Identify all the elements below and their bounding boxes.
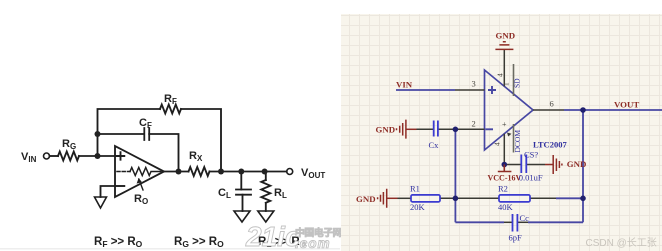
svg-text:VOUT: VOUT <box>614 100 639 110</box>
wire <box>181 109 221 172</box>
svg-text:CS?: CS? <box>524 150 538 160</box>
svg-text:GND: GND <box>356 194 376 204</box>
resistor RO internal with dashed lead <box>117 171 130 173</box>
blue component labels <box>410 78 567 243</box>
resistor RL <box>261 180 270 203</box>
svg-text:GND: GND <box>496 30 516 40</box>
LEFT PANEL (white schematic) <box>44 105 293 223</box>
small pin mark <box>507 133 512 137</box>
left panel labels <box>21 93 325 249</box>
op-amp plus input marker <box>117 152 125 160</box>
svg-text:VIN: VIN <box>396 80 413 90</box>
svg-text:Cx: Cx <box>429 140 440 150</box>
footer line left panel <box>0 248 340 250</box>
wire CL <box>240 172 242 190</box>
svg-text:1: 1 <box>502 82 511 86</box>
pin numbers gray <box>472 73 554 146</box>
pin 6 <box>533 109 564 111</box>
watermark 21ic.com left panel <box>245 221 343 251</box>
pin DCOM <box>513 124 515 153</box>
node VIN terminal <box>44 153 50 159</box>
wire <box>210 171 287 173</box>
capacitor C8 <box>521 155 526 174</box>
svg-text:Cc: Cc <box>520 213 530 223</box>
node junction dots left panel <box>95 131 268 175</box>
wire <box>149 134 178 172</box>
ground <box>234 211 250 222</box>
svg-text:R2: R2 <box>498 184 508 194</box>
wire <box>98 133 145 135</box>
RIGHT PANEL (beige Altium schematic) <box>341 14 662 251</box>
arrow to RO <box>139 179 143 190</box>
junction dots right panel <box>453 107 586 201</box>
wire <box>79 155 115 157</box>
plus input marker <box>488 86 496 94</box>
wire <box>98 109 161 156</box>
op-amp U1 LTC2007 <box>485 70 534 150</box>
svg-text:GND: GND <box>376 125 396 135</box>
wire vertical VOUT to Cc <box>582 110 584 222</box>
minus input marker <box>486 128 494 130</box>
resistor RX <box>189 167 210 176</box>
svg-text:4: 4 <box>496 73 505 77</box>
wire vertical Cx to bottom <box>454 129 456 222</box>
svg-text:RG >> RO: RG >> RO <box>174 236 224 249</box>
svg-text:GND: GND <box>567 159 587 169</box>
svg-text:CSDN @长工张: CSDN @长工张 <box>586 237 657 249</box>
resistor RG <box>58 152 79 161</box>
svg-text:0.01uF: 0.01uF <box>519 173 543 183</box>
node VOUT tap <box>580 107 586 113</box>
wire junction to C8 <box>504 164 521 166</box>
svg-text:LTC2007: LTC2007 <box>533 139 567 149</box>
svg-text:RO: RO <box>134 193 148 206</box>
wire <box>50 155 59 157</box>
ground GND at Cx <box>397 120 417 139</box>
pins (dark) <box>398 50 565 223</box>
svg-text:CF: CF <box>139 117 152 130</box>
wire VIN <box>396 89 455 91</box>
node D (RF tap) <box>218 169 224 175</box>
svg-text:6: 6 <box>550 99 554 109</box>
svg-text:VOUT: VOUT <box>301 167 325 180</box>
pin V- down <box>503 134 505 165</box>
capacitor CF <box>144 128 149 140</box>
capacitor CL <box>236 190 251 195</box>
pin 4 V+ from GND <box>503 50 505 87</box>
pin 2 wire <box>438 128 485 130</box>
pin SD <box>513 64 515 153</box>
wire Cx right <box>417 128 434 130</box>
pin 3 <box>455 89 485 91</box>
node B (CF tap) <box>95 131 101 137</box>
resistor RF <box>160 105 181 114</box>
ground <box>95 197 107 208</box>
wire VOUT <box>564 109 662 111</box>
svg-text:2: 2 <box>472 119 476 129</box>
ground GND at R1 <box>378 189 398 208</box>
svg-text:RX: RX <box>189 150 203 163</box>
ground <box>258 211 274 222</box>
wire C8 to gnd <box>527 164 546 166</box>
wire R2 right <box>530 197 556 199</box>
capacitor Cc <box>513 214 518 232</box>
op-amp U1 <box>115 146 164 197</box>
node C (opamp out / CF) <box>176 169 182 175</box>
node E (CL) <box>238 169 244 175</box>
power VCC-16V bar <box>498 165 512 172</box>
node A (input) <box>95 153 101 159</box>
svg-text:6pF: 6pF <box>509 233 523 243</box>
svg-text:40K: 40K <box>498 202 514 212</box>
wire RL <box>265 172 267 181</box>
op-amp minus input marker <box>117 185 125 187</box>
wire R2 to vertical <box>556 197 583 199</box>
svg-text:20K: 20K <box>410 202 426 212</box>
ground GND top (maroon) <box>495 42 513 50</box>
svg-text:CL: CL <box>218 187 231 200</box>
node R1/R2 <box>453 196 459 202</box>
node V- junction <box>502 162 508 168</box>
svg-text:RG: RG <box>62 138 76 151</box>
node F (RL) <box>262 169 268 175</box>
svg-text:4: 4 <box>493 142 502 146</box>
wire Cc pins <box>504 221 512 223</box>
maroon net labels <box>356 30 639 204</box>
wires blue <box>396 90 662 222</box>
svg-text:R1: R1 <box>410 184 420 194</box>
wire minus input <box>101 186 116 197</box>
resistor R1 <box>411 195 440 202</box>
svg-text:SD: SD <box>513 78 522 88</box>
resistor R2 <box>499 195 530 202</box>
node VOUT terminal <box>287 169 293 175</box>
wire bottom right of Cc <box>528 221 583 223</box>
capacitor Cx <box>434 121 438 137</box>
wire bottom left of Cc <box>455 221 504 223</box>
svg-text:RF >> RO: RF >> RO <box>94 236 143 249</box>
svg-text:RL: RL <box>274 187 287 200</box>
svg-text:3: 3 <box>472 79 476 89</box>
wire output <box>164 171 189 173</box>
wire R1 right to junction <box>440 197 499 199</box>
wire R1 left <box>398 197 412 199</box>
svg-text:VIN: VIN <box>21 151 37 164</box>
wire <box>265 203 267 211</box>
node R2/vertical <box>580 196 586 202</box>
svg-text:VCC-16V: VCC-16V <box>488 174 522 183</box>
node Cx/pin2 <box>453 127 459 133</box>
wire <box>242 195 244 211</box>
svg-text:RF: RF <box>164 93 177 106</box>
svg-text:+: + <box>502 120 507 129</box>
svg-text:DCOM: DCOM <box>513 130 522 153</box>
ground GND at C8 <box>545 155 562 174</box>
